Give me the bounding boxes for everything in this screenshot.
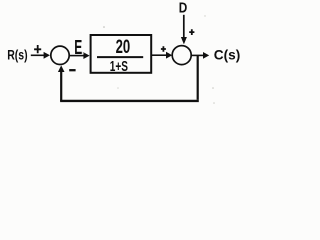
svg-text:D: D	[179, 0, 188, 17]
plus sign at U2 disturbance input	[189, 29, 194, 35]
feedback wire tap from output down	[197, 55, 199, 99]
fraction bar of G1	[97, 56, 143, 58]
wire block G1 to summing junction U2	[152, 52, 172, 59]
node E error signal label	[74, 37, 82, 59]
feedback wire up to summing junction U1	[58, 65, 65, 101]
wire summing junction U2 to C(s) output	[191, 52, 209, 59]
svg-text:1+S: 1+S	[110, 59, 128, 75]
wire R(s) to summing junction U1	[31, 52, 50, 59]
svg-text:C(s): C(s)	[214, 47, 241, 63]
numerator value 20	[116, 37, 131, 58]
svg-text:R(s): R(s)	[7, 48, 28, 64]
block G1 transfer function	[91, 35, 152, 73]
summing junction U2	[172, 46, 191, 65]
plus sign at U2 input from G1	[161, 46, 166, 51]
plus sign at summing junction U1 reference input	[34, 45, 41, 53]
wire summing junction U1 to block G1	[69, 52, 89, 59]
summing junction U1	[51, 46, 69, 64]
feedback wire bottom run	[60, 100, 199, 102]
wire D to summing junction U2	[181, 15, 187, 45]
svg-text:20: 20	[116, 37, 131, 58]
denominator 1+S	[110, 59, 128, 75]
node C(s) output label	[214, 47, 241, 63]
node D disturbance label	[179, 0, 188, 17]
node R(s) input label	[7, 48, 28, 64]
minus sign at U1 feedback input	[69, 69, 75, 71]
